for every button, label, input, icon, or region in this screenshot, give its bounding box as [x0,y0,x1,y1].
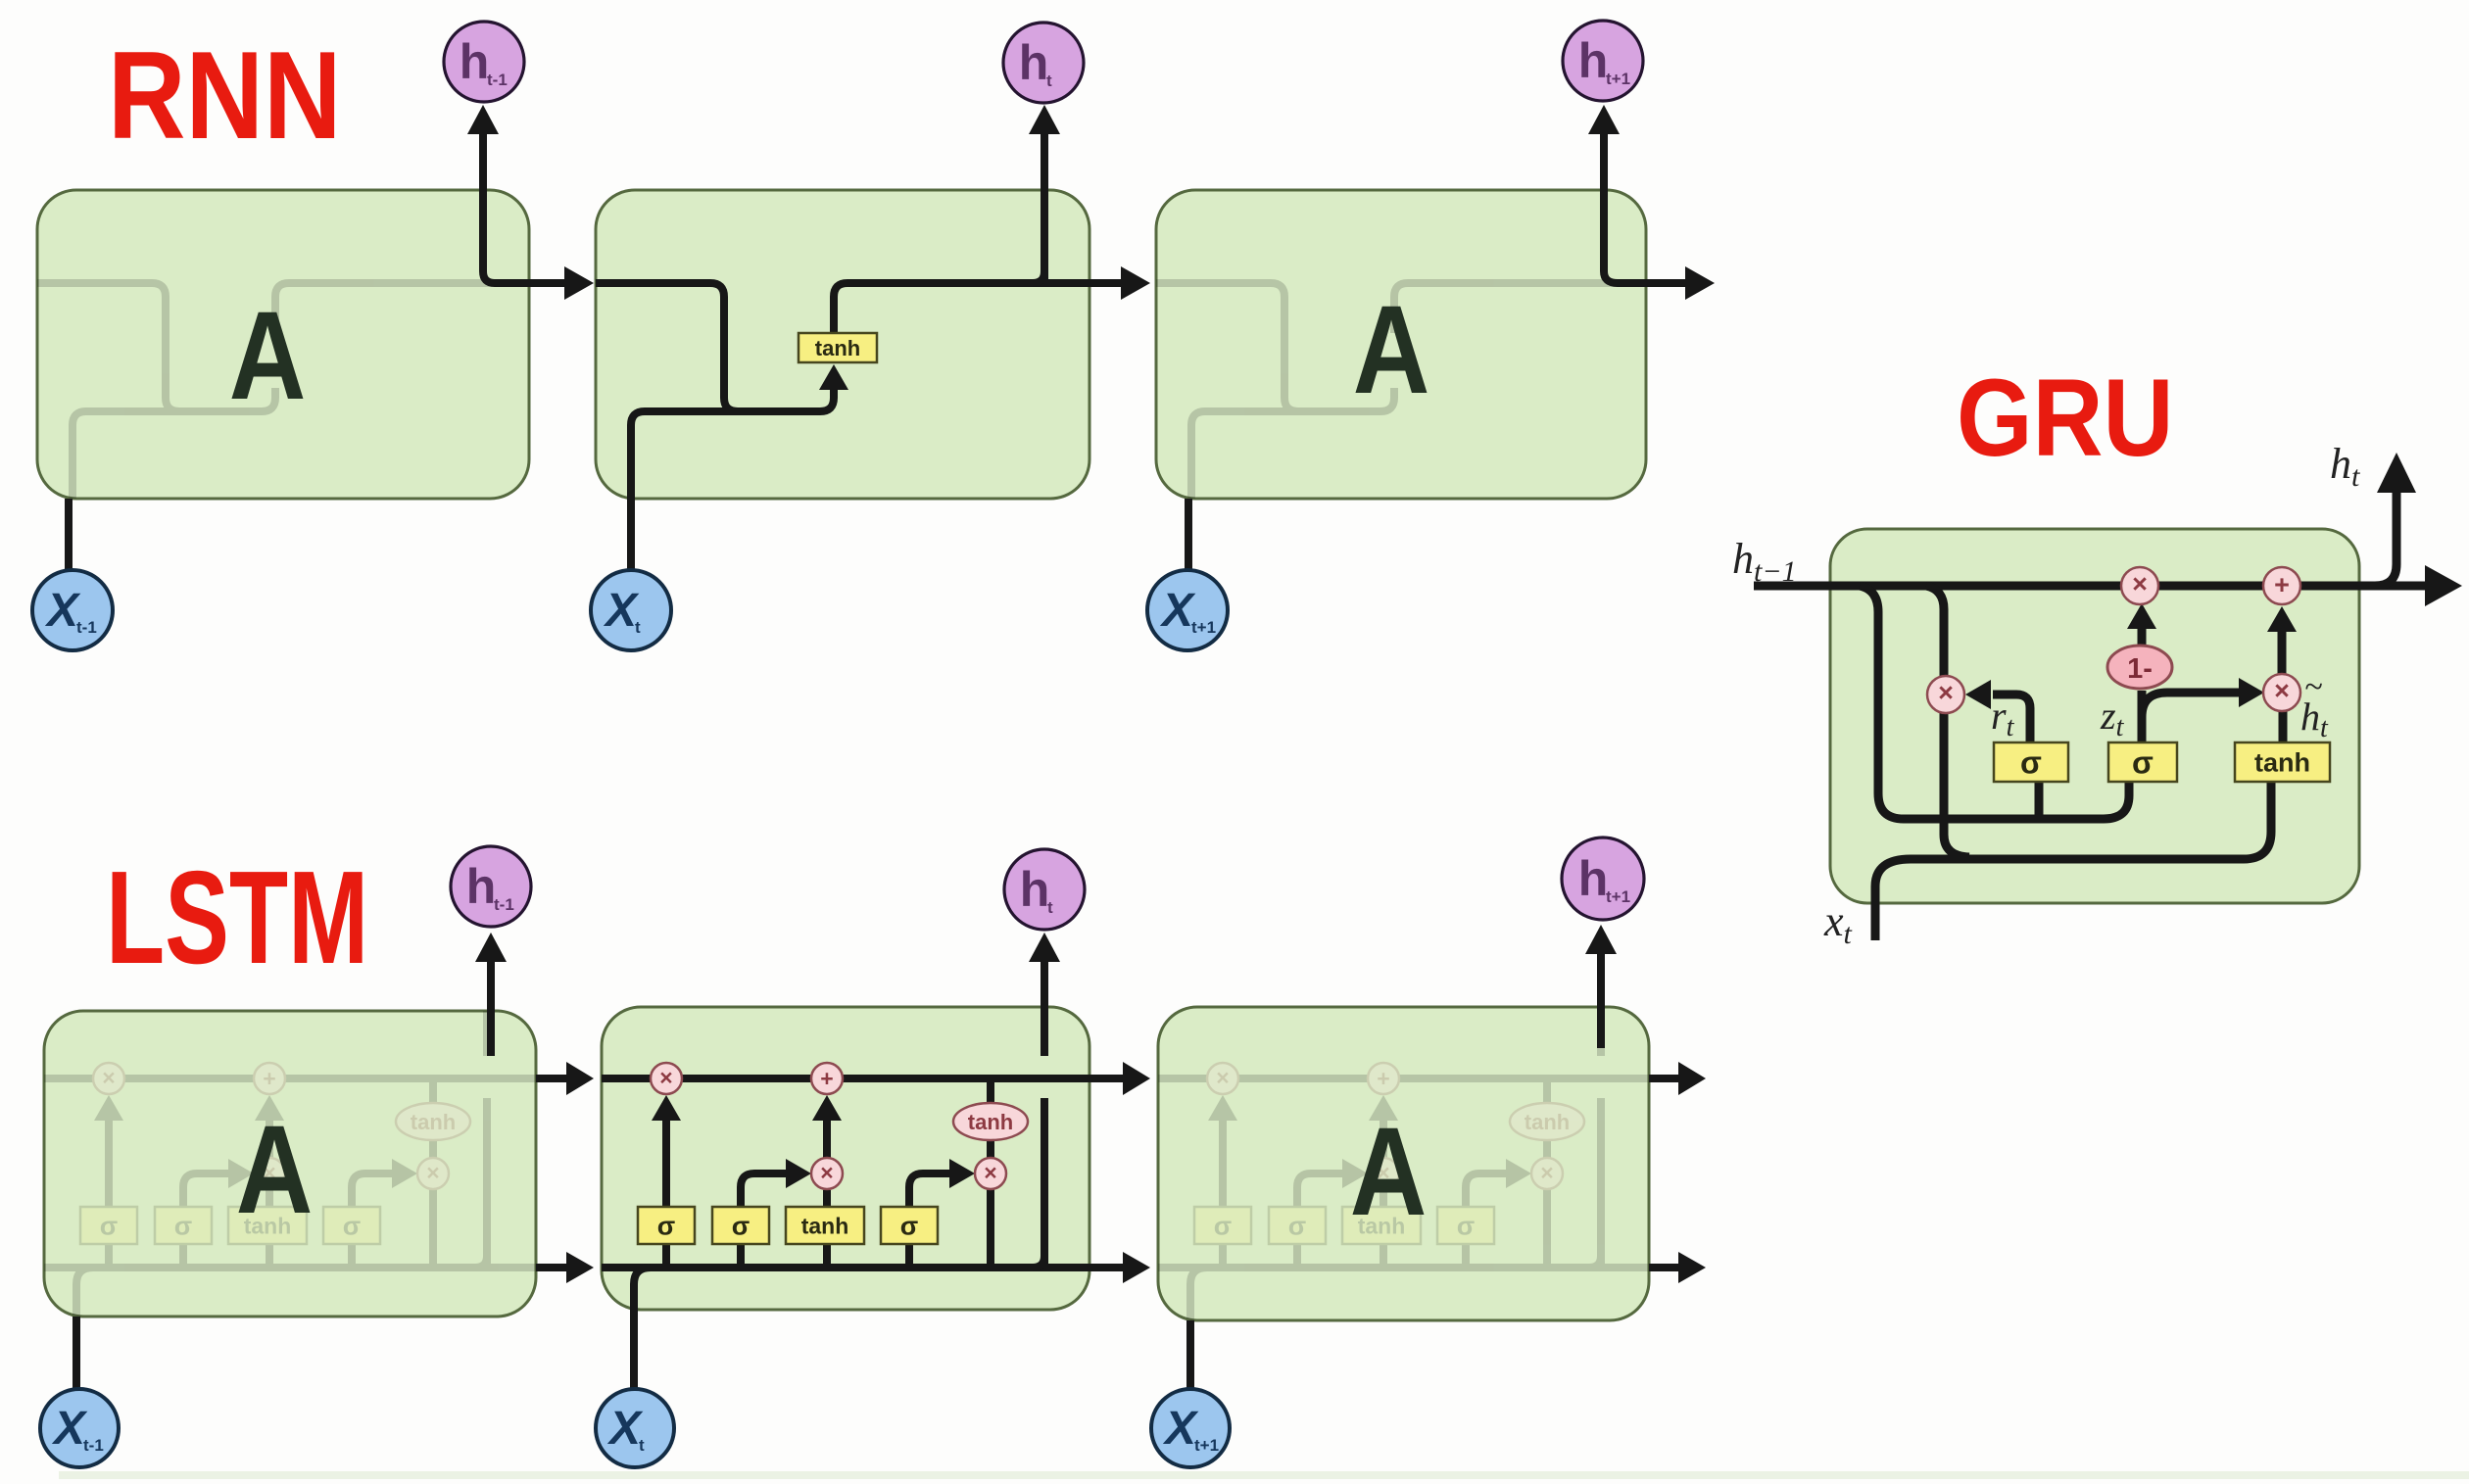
wire: x input entering bottom line [1190,1268,1207,1388]
wire: LSTM cell-state arrow from left cell into middle cell [536,1075,582,1082]
node x(t+1) LSTM [1151,1389,1230,1467]
op multiply on cell line [1207,1063,1238,1094]
op multiply output [417,1158,449,1189]
svg-text:tanh: tanh [1525,1110,1570,1134]
LSTM cell A(t-1) box [44,1011,536,1316]
svg-text:t-1: t-1 [494,895,514,914]
node h(t-1) LSTM [451,846,531,927]
gate sigma input [1269,1207,1326,1244]
svg-text:σ: σ [1214,1212,1232,1241]
wire: tanh output line to next cell [834,283,1138,333]
RNN cell (t) box [596,190,1089,499]
wire: LSTM left cell output up to h(t-1) [487,962,495,1056]
node x(t) RNN [591,570,671,650]
op tanh ellipse [396,1103,470,1140]
wire: forget gate column [105,1244,113,1268]
wire: x(t+1) into RNN right cell [1185,499,1192,570]
svg-text:σ: σ [1288,1212,1306,1241]
wire: 1- up into X on h-line [2138,617,2147,646]
wire: forget gate column [1219,1244,1227,1268]
op multiply output [975,1158,1006,1189]
wire: tanh output line to next cell [1394,283,1699,333]
wire: x(t+1) into LSTM right cell [1186,1320,1194,1389]
wire: z branch right into X near h-tilde [2142,693,2240,717]
node x(t+1) RNN [1147,570,1228,650]
svg-text:GRU: GRU [1957,358,2173,480]
svg-text:h: h [1578,851,1609,906]
svg-text:~: ~ [2304,669,2322,705]
svg-text:t-1: t-1 [76,618,97,637]
wire: x input rising into tanh path [1191,411,1305,569]
svg-text:A: A [236,1100,314,1240]
wire: cell state down through tanh ellipse [429,1078,437,1104]
wire: hidden state bottom line [44,1264,581,1271]
wire: x(t) into RNN middle cell (below box) [627,499,635,569]
op add on cell line [1368,1063,1399,1094]
RNN cell A(t+1) box [1156,190,1646,499]
svg-text:tanh: tanh [801,1213,849,1238]
gate sigma output [881,1207,938,1244]
op multiply candidate [254,1158,285,1189]
svg-text:t+1: t+1 [1606,887,1630,906]
wire: LSTM right cell exits [1649,1075,1678,1082]
gate sigma output [1437,1207,1494,1244]
svg-text:σ: σ [657,1212,675,1241]
wire: recurrent input path down to tanh [37,283,275,411]
node h(t) RNN [1003,23,1084,103]
wire: RNN left cell output bending right into middle cell [483,134,566,283]
svg-text:σ: σ [1457,1212,1475,1241]
svg-text:×: × [426,1160,439,1185]
wire: LSTM right cell output up to h(t+1) [1597,954,1605,1048]
svg-text:×: × [1540,1160,1553,1185]
svg-text:1-: 1- [2127,653,2153,685]
svg-text:A: A [1350,1102,1428,1242]
ghost internals LSTM cell t-1 [44,933,593,1388]
wire: x input entering bottom line [76,1268,93,1388]
wire: recurrent input path down to tanh [1156,283,1394,411]
svg-text:σ: σ [174,1212,192,1241]
gate sigma forget [1194,1207,1251,1244]
wire: GRU output branch up to h(t) [2375,493,2396,586]
gate sigma r GRU [1994,742,2068,782]
svg-text:+: + [263,1066,275,1091]
svg-text:h: h [466,859,497,914]
wire: input gate column [1293,1244,1301,1268]
gate tanh candidate [228,1207,307,1244]
node h(t-1) RNN [444,22,524,102]
svg-text:h: h [460,34,490,89]
node h(t) LSTM [1004,849,1085,930]
op multiply candidate [1368,1158,1399,1189]
wire: x input entering bottom line [634,1268,651,1388]
svg-text:xt: xt [1823,897,1853,950]
op X on h-line GRU [2121,567,2158,604]
wire: x input rising into tanh path [631,411,745,569]
wire: tanh output line to next cell [275,283,580,333]
wire: cell state line [44,1075,581,1082]
wire: forget gate column [662,1244,670,1268]
bottom green band artifact [59,1471,2469,1479]
wire: sigma r-gate feed stub [2035,782,2044,819]
svg-text:h: h [1578,33,1609,88]
wire: x(t-1) into RNN left cell [65,499,73,570]
svg-text:tanh: tanh [968,1110,1013,1134]
svg-text:+: + [1377,1066,1389,1091]
svg-text:t+1: t+1 [1606,70,1630,88]
gate sigma output [323,1207,380,1244]
op tanh ellipse [953,1103,1028,1140]
svg-text:t: t [1047,898,1053,917]
wire: input gate column [179,1244,187,1268]
RNN cell A(t-1) box [37,190,529,499]
svg-text:×: × [984,1160,996,1185]
op X h-tilde GRU [2263,674,2300,711]
node x(t) LSTM [596,1389,674,1467]
svg-text:+: + [820,1066,833,1091]
wire: candidate tanh column [266,1244,273,1268]
svg-text:tanh: tanh [2254,748,2310,778]
wire: cell state line [602,1075,1138,1082]
gate sigma forget [638,1207,695,1244]
svg-text:t: t [639,1436,645,1455]
svg-text:×: × [820,1160,833,1185]
wire: hidden state bottom line [1158,1264,1695,1271]
gate sigma z GRU [2108,742,2177,782]
svg-text:ht−1: ht−1 [1732,535,1797,588]
wire: x(t-1) into LSTM left cell [73,1316,80,1389]
op X reset GRU [1927,676,1964,713]
node h(t+1) LSTM [1562,838,1644,920]
ghost internals RNN cell t-1 [37,283,580,569]
GRU cell box [1830,529,2359,903]
wire: GRU x(t) input rising and running right into tanh gate [1875,782,2271,940]
wire: branch up to h output [1033,271,1044,283]
LSTM cell A(t+1) box [1158,1007,1649,1320]
wire: tanh output up into X [2279,711,2288,742]
op multiply on cell line [651,1063,682,1094]
svg-text:σ: σ [100,1212,118,1241]
svg-text:×: × [2274,676,2290,705]
op add on cell line [254,1063,285,1094]
svg-text:h: h [1020,862,1050,917]
wire: RNN right cell output bending right to exit arrow [1604,134,1687,283]
wire: candidate tanh column [1380,1244,1387,1268]
node x(t-1) LSTM [40,1389,119,1467]
wire: r(t) output from sigma up and left into X [1993,694,2030,742]
wire: hidden state bottom line [602,1264,1138,1271]
op tanh ellipse [1510,1103,1584,1140]
wire: output gate column [1462,1244,1470,1268]
svg-text:×: × [1216,1065,1229,1090]
node x(t-1) RNN [32,570,113,650]
gate tanh GRU [2235,742,2330,782]
svg-text:×: × [659,1065,672,1090]
svg-text:RNN: RNN [108,26,342,166]
svg-text:σ: σ [732,1212,750,1241]
gate tanh candidate [786,1207,864,1244]
svg-text:×: × [1938,678,1954,707]
svg-text:tanh: tanh [815,336,860,360]
gate sigma forget [80,1207,137,1244]
wire: output branch up to h with hop [1033,1256,1044,1268]
svg-text:t: t [1046,72,1052,90]
svg-text:t-1: t-1 [487,71,508,89]
wire: GRU branch down to z-gate sigma (left S-curve) [1860,586,2129,819]
wire: product up into + [823,1119,831,1159]
svg-text:t: t [635,618,641,637]
svg-text:tanh: tanh [411,1110,456,1134]
wire: output branch up to h with hop [1589,1256,1601,1268]
svg-text:ht: ht [2330,440,2360,493]
wire: input gate column [737,1244,745,1268]
gate sigma input [155,1207,212,1244]
wire: product up into + [266,1119,273,1159]
LSTM cell (t) box [602,1007,1089,1310]
ghost internals RNN cell t+1 [1156,283,1699,569]
LSTM middle cell internals [602,933,1150,1388]
svg-text:σ: σ [343,1212,361,1241]
svg-text:t+1: t+1 [1194,1436,1219,1455]
wire: x input rising into tanh path [73,411,186,569]
svg-text:t+1: t+1 [1191,618,1216,637]
wire: X up into + [2278,619,2287,674]
svg-text:LSTM: LSTM [106,844,368,992]
wire: cell state down through tanh ellipse [1543,1078,1551,1104]
svg-text:σ: σ [900,1212,918,1241]
wire: z(t) from sigma up to 1- ellipse [2138,691,2147,742]
wire: GRU h(t-1) line across to output arrow [1754,582,2450,591]
svg-text:×: × [102,1065,115,1090]
svg-text:+: + [2274,570,2290,599]
svg-text:×: × [2132,569,2148,598]
wire: LSTM hidden-state arrow from left cell into middle cell [536,1264,582,1271]
wire: cell state line [1158,1075,1695,1082]
wire: output gate column [905,1244,913,1268]
wire: output branch up to h with hop [475,1256,487,1268]
gate tanh candidate [1342,1207,1421,1244]
svg-text:h: h [1019,35,1049,90]
op 1- ellipse GRU [2107,646,2172,689]
op multiply candidate [811,1158,843,1189]
wire: candidate tanh column [823,1244,831,1268]
RNN middle cell internals [596,105,1150,569]
gate sigma input [712,1207,769,1244]
svg-text:A: A [1353,280,1430,420]
ghost internals LSTM cell t+1 [1158,933,1707,1388]
wire: cell state down through tanh ellipse [987,1078,994,1104]
op multiply output [1531,1158,1563,1189]
op + on h-line GRU [2263,567,2300,604]
svg-text:t-1: t-1 [83,1436,104,1455]
wire: GRU branch down through reset X [1926,586,1969,857]
svg-text:A: A [229,286,307,426]
op add on cell line [811,1063,843,1094]
op multiply on cell line [93,1063,124,1094]
wire: product up into + [1380,1119,1387,1159]
wire: recurrent input path down to tanh [596,283,834,411]
node h(t+1) RNN [1563,21,1643,101]
gate tanh RNN [799,333,877,362]
svg-text:σ: σ [2132,745,2154,781]
svg-text:σ: σ [2020,745,2042,781]
wire: output gate column [348,1244,356,1268]
